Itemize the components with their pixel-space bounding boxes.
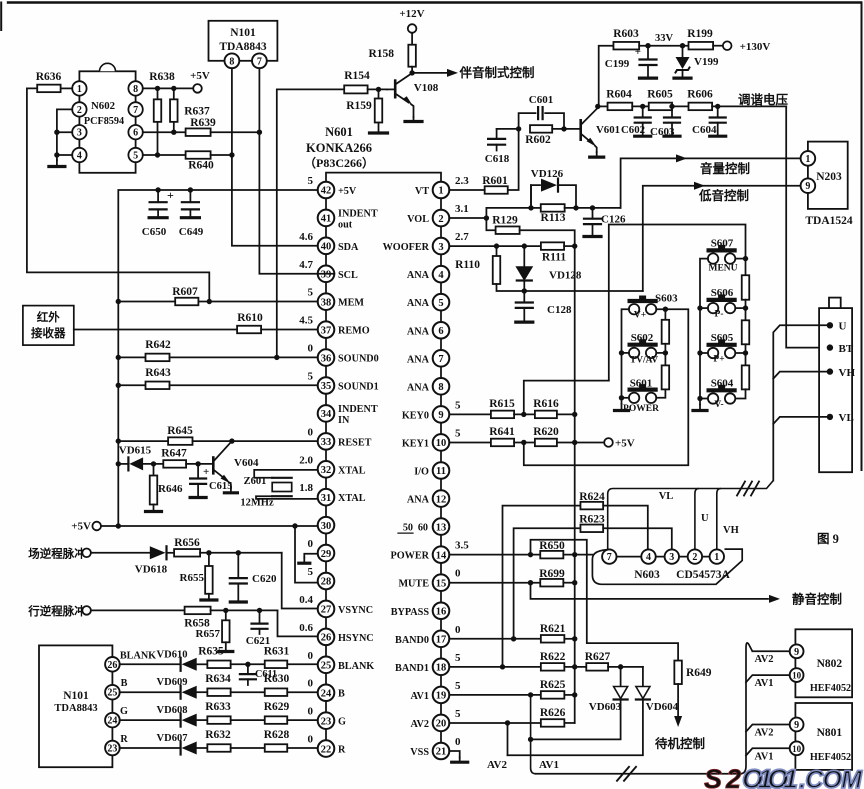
- svg-text:VH: VH: [839, 367, 856, 379]
- svg-text:SCL: SCL: [338, 270, 358, 281]
- pin 41 of N601: [318, 210, 335, 227]
- svg-text:4.7: 4.7: [299, 259, 313, 271]
- svg-text:0.6: 0.6: [299, 622, 313, 634]
- svg-text:15: 15: [436, 578, 447, 589]
- wire VOL node up to R113 row: [486, 208, 531, 218]
- svg-text:SOUND0: SOUND0: [338, 354, 379, 365]
- pin 19 of N601: [433, 687, 450, 704]
- svg-text:R639: R639: [190, 117, 216, 129]
- svg-text:R610: R610: [237, 312, 263, 324]
- ground below C615: [197, 484, 199, 498]
- box tuner: [819, 308, 852, 472]
- terminal +130V: [723, 41, 732, 50]
- cable slashes on harness: [737, 482, 745, 496]
- svg-text:0: 0: [455, 568, 461, 580]
- svg-text:5: 5: [455, 680, 461, 692]
- ground below V108 emitter: [413, 117, 415, 122]
- capacitor C650 electrolytic: [157, 190, 159, 202]
- svg-text:18: 18: [436, 663, 447, 674]
- wire IR receiver to REMO row: [74, 329, 237, 331]
- svg-text:8: 8: [438, 382, 443, 393]
- svg-text:+: +: [167, 188, 174, 202]
- wire harness VL/U/VH to N603: [608, 481, 774, 550]
- svg-text:ANA: ANA: [407, 382, 430, 393]
- svg-text:R620: R620: [533, 426, 559, 438]
- svg-text:VD618: VD618: [135, 564, 168, 576]
- svg-text:41: 41: [321, 214, 332, 225]
- pin 7 of N601: [433, 350, 450, 367]
- resistor R638 vertical: [155, 86, 160, 91]
- pin 9 of N203: [801, 178, 816, 193]
- svg-text:C603: C603: [650, 126, 675, 138]
- wire POWER row: [449, 554, 540, 556]
- svg-text:V199: V199: [694, 56, 719, 68]
- svg-text:BYPASS: BYPASS: [391, 607, 430, 618]
- wire tuning voltage to tuner BT: [786, 106, 829, 347]
- svg-text:+5V: +5V: [190, 70, 210, 82]
- svg-text:TDA1524: TDA1524: [805, 215, 853, 227]
- svg-text:接收器: 接收器: [31, 326, 66, 340]
- svg-text:IN: IN: [338, 415, 350, 426]
- svg-text:5: 5: [455, 399, 461, 411]
- svg-text:P-: P-: [715, 310, 724, 320]
- svg-text:R616: R616: [533, 398, 559, 410]
- wire R158 to collector node: [411, 67, 413, 73]
- pin 25 of N101 bottom: [105, 685, 120, 700]
- wire KEY0 feed jog to right button group: [609, 225, 746, 381]
- svg-text:XTAL: XTAL: [338, 465, 366, 476]
- svg-text:ANA: ANA: [407, 326, 430, 337]
- svg-text:R632: R632: [205, 729, 231, 741]
- pin 34 of N601: [318, 405, 335, 422]
- svg-text:C611: C611: [255, 669, 277, 680]
- wire N802 pin9 AV2: [752, 650, 789, 652]
- IC N101 top box TDA8843: [209, 21, 278, 61]
- svg-text:R631: R631: [264, 645, 290, 657]
- svg-text:KEY0: KEY0: [402, 410, 429, 421]
- svg-text:KEY1: KEY1: [402, 438, 429, 449]
- svg-text:R628: R628: [264, 729, 290, 741]
- wire U branch to N603 pin2: [695, 489, 699, 550]
- pin 1 of N203: [801, 151, 816, 166]
- svg-text:VD610: VD610: [157, 649, 188, 660]
- pin 25 of N601: [318, 657, 335, 674]
- ground below V604 emitter: [230, 489, 232, 493]
- capacitor C603: [671, 106, 673, 117]
- svg-text:R643: R643: [145, 367, 171, 379]
- pin 24 of N101 bottom: [105, 713, 120, 728]
- svg-text:2: 2: [438, 214, 443, 225]
- svg-text:3: 3: [438, 242, 443, 253]
- svg-text:+: +: [203, 466, 209, 478]
- svg-text:C650: C650: [142, 226, 167, 238]
- svg-text:调谐电压: 调谐电压: [738, 92, 789, 107]
- svg-text:R602: R602: [525, 134, 551, 146]
- svg-text:R603: R603: [613, 28, 639, 40]
- watermark logo: [704, 764, 863, 789]
- ground below R646: [153, 505, 155, 512]
- svg-text:待机控制: 待机控制: [655, 736, 705, 751]
- svg-text:24: 24: [321, 688, 332, 699]
- svg-text:R637: R637: [184, 105, 210, 117]
- svg-text:B: B: [338, 689, 345, 700]
- ground below N602 pin 4: [56, 160, 58, 167]
- svg-text:2.0: 2.0: [299, 454, 313, 466]
- wire volume control to N203 pin1: [621, 158, 801, 208]
- pin 9 of N801: [790, 718, 804, 732]
- svg-text:3.5: 3.5: [455, 540, 469, 552]
- svg-text:伴音制式控制: 伴音制式控制: [458, 65, 534, 80]
- wire BAND1 row: [449, 666, 541, 668]
- svg-text:S607: S607: [711, 238, 734, 250]
- transistor V604: [212, 458, 215, 474]
- wire AV bus vertical right: [740, 643, 752, 774]
- svg-text:TDA8843: TDA8843: [54, 703, 97, 714]
- svg-text:0: 0: [308, 343, 314, 355]
- wire N101 pin8 to SDA pin40: [232, 68, 318, 246]
- svg-text:N601: N601: [325, 125, 353, 139]
- svg-text:AV1: AV1: [754, 678, 773, 689]
- svg-text:静音控制: 静音控制: [792, 592, 842, 607]
- svg-text:17: 17: [436, 635, 447, 646]
- svg-text:HEF4052: HEF4052: [810, 683, 851, 694]
- svg-text:out: out: [338, 219, 353, 230]
- wire R638 bottom to pin5 row: [157, 122, 159, 155]
- resistor R655 vertical: [208, 553, 210, 566]
- resistor R657 vertical: [225, 610, 227, 620]
- svg-text:B: B: [121, 678, 128, 689]
- svg-text:9: 9: [794, 720, 799, 731]
- wire R110 bottom to rail: [497, 284, 643, 291]
- wire N603 pin row link: [609, 556, 717, 558]
- push button S606 P-: [708, 303, 718, 313]
- wire tuner VH to bundle: [773, 372, 830, 379]
- pin 42 of N601: [318, 182, 335, 199]
- svg-text:WOOFER: WOOFER: [383, 242, 430, 253]
- svg-text:BLANK: BLANK: [120, 650, 156, 661]
- capacitor C199 electrolytic: [647, 46, 649, 59]
- terminal field flyback: [82, 549, 91, 558]
- pin 3 of N603: [665, 549, 679, 563]
- svg-text:RESET: RESET: [338, 437, 372, 448]
- svg-text:R110: R110: [455, 259, 480, 271]
- capacitor C620: [237, 553, 239, 578]
- svg-text:13: 13: [436, 522, 447, 533]
- box infrared receiver 红外接收器: [23, 306, 74, 346]
- svg-text:U: U: [701, 513, 709, 524]
- svg-text:28: 28: [321, 577, 332, 588]
- pin 4 of N601: [433, 266, 450, 283]
- svg-text:37: 37: [321, 325, 332, 336]
- svg-text:+12V: +12V: [399, 8, 424, 20]
- svg-text:1: 1: [714, 552, 719, 563]
- pin 28 of N601: [318, 573, 335, 590]
- svg-text:2.3: 2.3: [455, 175, 469, 187]
- svg-text:19: 19: [436, 691, 447, 702]
- push button S607 MENU: [708, 253, 718, 263]
- wire N802 pin10 AV1: [746, 675, 790, 682]
- svg-text:AV1: AV1: [539, 759, 559, 771]
- svg-text:N802: N802: [817, 658, 843, 670]
- svg-text:BAND1: BAND1: [395, 663, 429, 674]
- wire IC left pin column: [325, 198, 327, 209]
- svg-text:R657: R657: [196, 628, 221, 640]
- svg-text:4.6: 4.6: [299, 231, 313, 243]
- svg-text:AV1: AV1: [754, 752, 773, 763]
- svg-text:ANA: ANA: [407, 495, 430, 506]
- ground below C199: [647, 65, 649, 78]
- svg-text:35: 35: [321, 381, 332, 392]
- svg-text:TDA8843: TDA8843: [219, 41, 267, 53]
- pin 1 of N602: [72, 81, 86, 95]
- pin 30 of N601: [318, 517, 335, 534]
- pin 5 of N601: [433, 294, 450, 311]
- svg-text:R159: R159: [346, 100, 372, 112]
- svg-text:P+: P+: [713, 355, 724, 365]
- wire crystal bottom to XTAL pin31: [256, 496, 318, 499]
- svg-text:26: 26: [321, 633, 332, 644]
- wire left rail of right button group: [700, 259, 708, 405]
- svg-text:V604: V604: [234, 457, 259, 469]
- svg-text:R626: R626: [540, 707, 566, 719]
- capacitor C611: [245, 662, 250, 667]
- svg-text:25: 25: [321, 661, 332, 672]
- wire field flyback to VSYNC pin27: [282, 553, 318, 609]
- svg-text:C604: C604: [692, 124, 717, 136]
- svg-text:31: 31: [321, 493, 332, 504]
- svg-text:HEF4052: HEF4052: [810, 752, 851, 763]
- pin 7 of N101 top: [252, 53, 267, 68]
- svg-text:50: 50: [403, 523, 413, 534]
- svg-text:G: G: [120, 706, 128, 717]
- resistor R637 vertical: [171, 86, 176, 91]
- diode VD604: [642, 667, 644, 687]
- svg-text:3: 3: [669, 552, 674, 563]
- svg-text:VSYNC: VSYNC: [338, 605, 373, 616]
- pin 10 of N601: [433, 434, 450, 451]
- terminal line flyback: [82, 606, 91, 615]
- svg-text:AV1: AV1: [411, 691, 430, 702]
- svg-text:CD54573A: CD54573A: [676, 569, 730, 581]
- svg-text:4: 4: [77, 151, 82, 162]
- wire left rail of left button group: [622, 309, 629, 404]
- svg-text:R158: R158: [368, 48, 394, 60]
- svg-text:SDA: SDA: [338, 242, 359, 253]
- wire +5V row from pin42 to rail: [118, 190, 317, 526]
- pin 2 of N603: [688, 549, 702, 563]
- svg-text:5: 5: [455, 427, 461, 439]
- svg-text:R607: R607: [172, 286, 198, 298]
- pin 13 of N601: [433, 518, 450, 535]
- svg-text:N101: N101: [63, 690, 89, 702]
- pin 2 of N601: [433, 210, 450, 227]
- pin 7 of N602: [128, 102, 142, 116]
- svg-text:C618: C618: [485, 153, 510, 165]
- wire R636 left rail down to MEM long wire: [27, 88, 209, 301]
- svg-text:23: 23: [321, 716, 332, 727]
- terminal +12V: [408, 24, 417, 33]
- svg-text:R629: R629: [264, 701, 290, 713]
- wire +5V to pin30 and pin28: [101, 525, 318, 527]
- svg-text:4: 4: [438, 270, 444, 281]
- svg-text:R199: R199: [687, 28, 713, 40]
- pin 37 of N601: [318, 321, 335, 338]
- svg-text:（P83C266）: （P83C266）: [304, 155, 374, 170]
- svg-text:R622: R622: [540, 651, 566, 663]
- svg-text:R615: R615: [489, 398, 515, 410]
- node tuner VH terminal: [827, 368, 833, 374]
- pin 23 of N601: [318, 712, 335, 729]
- svg-text:0: 0: [308, 426, 314, 438]
- svg-text:2: 2: [77, 105, 82, 116]
- svg-text:R621: R621: [540, 623, 566, 635]
- wire KEY0 row: [449, 413, 491, 415]
- svg-text:4.5: 4.5: [299, 315, 313, 327]
- svg-text:C602: C602: [621, 124, 645, 136]
- wire crystal top to XTAL pin32: [254, 470, 318, 478]
- svg-text:2.7: 2.7: [455, 231, 469, 243]
- IC N801 HEF4052 box: [795, 703, 852, 770]
- svg-text:R: R: [120, 734, 128, 745]
- pin 27 of N601: [318, 601, 335, 618]
- wire R650 bypass loop to standby feed: [531, 540, 679, 661]
- wire N602 pin8 row to +5V terminal: [143, 87, 193, 89]
- svg-text:I/O: I/O: [414, 467, 429, 478]
- pin 14 of N601: [433, 546, 450, 563]
- svg-text:R627: R627: [585, 651, 611, 663]
- svg-text:9: 9: [794, 647, 799, 658]
- wire R154 line from SOUND0 junction up: [277, 89, 344, 357]
- svg-text:C128: C128: [547, 304, 572, 316]
- svg-text:R633: R633: [205, 701, 231, 713]
- pin 8 of N602: [128, 81, 142, 95]
- svg-text:R113: R113: [541, 212, 566, 224]
- capacitor C615 electrolytic: [197, 464, 199, 478]
- svg-text:MUTE: MUTE: [398, 579, 429, 590]
- IC N802 HEF4052 box: [795, 629, 852, 697]
- svg-text:R635: R635: [198, 645, 224, 657]
- svg-text:R645: R645: [167, 425, 193, 437]
- wire standby control arrow: [677, 684, 679, 722]
- svg-text:8: 8: [229, 56, 234, 67]
- pin 23 of N101 bottom: [105, 741, 120, 756]
- pin 38 of N601: [318, 293, 335, 310]
- svg-text:12: 12: [436, 494, 447, 505]
- svg-text:5: 5: [308, 287, 314, 299]
- node tuner BT terminal: [827, 344, 833, 350]
- svg-text:0: 0: [308, 734, 314, 746]
- svg-text:.COM: .COM: [799, 766, 863, 789]
- svg-text:R640: R640: [188, 160, 214, 172]
- wire G row: [120, 719, 181, 721]
- svg-text:ANA: ANA: [407, 298, 430, 309]
- ground at pin29: [304, 554, 317, 558]
- pin 10 of N802: [790, 668, 804, 682]
- wire MUTE row: [449, 582, 540, 584]
- pin 7 of N603: [602, 549, 616, 563]
- svg-text:R601: R601: [482, 175, 508, 187]
- svg-text:R646: R646: [158, 483, 183, 495]
- ground below C649: [189, 209, 191, 217]
- svg-text:C620: C620: [252, 573, 277, 585]
- svg-text:5: 5: [455, 708, 461, 720]
- resistor R646 vertical: [153, 464, 155, 476]
- node VOL pin2 junction: [449, 217, 486, 219]
- svg-text:SOUND1: SOUND1: [338, 382, 379, 393]
- pin 9 of N601: [433, 406, 450, 423]
- svg-text:36: 36: [321, 353, 332, 364]
- wire IC right pin column: [440, 198, 442, 209]
- svg-text:VL: VL: [659, 491, 674, 502]
- wire R639 to SCL vertical: [211, 131, 260, 133]
- pin 4 of N602: [72, 148, 86, 162]
- svg-text:5: 5: [455, 652, 461, 664]
- wire BAND0 row: [449, 638, 541, 640]
- svg-text:1.8: 1.8: [299, 482, 313, 494]
- cable break slashes on AV1 line: [617, 767, 629, 781]
- wire R row: [120, 747, 181, 749]
- svg-text:25: 25: [107, 688, 117, 699]
- wire RESET row: [118, 440, 168, 442]
- wire sound-system control arrow: [412, 72, 452, 74]
- svg-text:R638: R638: [149, 71, 175, 83]
- ground below R655: [208, 594, 210, 600]
- svg-text:VD604: VD604: [646, 701, 679, 713]
- pin 10 of N801: [790, 741, 804, 755]
- svg-text:42: 42: [321, 186, 332, 197]
- wire AV1 bottom line: [536, 773, 741, 775]
- pin 1 of N603: [710, 549, 724, 563]
- svg-text:N603: N603: [634, 569, 660, 581]
- svg-text:ANA: ANA: [407, 354, 430, 365]
- svg-text:V108: V108: [414, 82, 439, 94]
- svg-text:N602: N602: [91, 100, 115, 112]
- diode VD603: [620, 667, 622, 687]
- svg-text:BT: BT: [839, 343, 854, 355]
- svg-text:R634: R634: [205, 673, 231, 685]
- svg-text:红外: 红外: [37, 310, 60, 324]
- pin 1 of N601: [433, 182, 450, 199]
- ground below V199: [682, 70, 684, 78]
- svg-text:5: 5: [438, 298, 443, 309]
- svg-text:S606: S606: [711, 287, 734, 299]
- svg-text:8: 8: [133, 84, 138, 95]
- pin 12 of N601: [433, 490, 450, 507]
- svg-text:U: U: [839, 321, 847, 333]
- svg-text:30: 30: [321, 521, 332, 532]
- svg-text:MEM: MEM: [338, 298, 364, 309]
- pin 26 of N101 bottom: [105, 657, 120, 672]
- svg-text:3.1: 3.1: [455, 203, 469, 215]
- pin 31 of N601: [318, 489, 335, 506]
- IC N203 TDA1524 box: [808, 142, 848, 209]
- svg-text:R154: R154: [344, 70, 370, 82]
- svg-text:音量控制: 音量控制: [700, 161, 750, 176]
- resistor R158 vertical: [411, 33, 413, 45]
- svg-text:C199: C199: [605, 58, 630, 70]
- svg-text:V-: V-: [714, 400, 723, 410]
- push button S604 V-: [708, 393, 718, 403]
- node WOOFER pin3 junctions: [449, 245, 541, 247]
- svg-text:R647: R647: [161, 448, 187, 460]
- pin 8 of N101 top: [225, 53, 240, 68]
- svg-text:S603: S603: [655, 293, 678, 305]
- svg-text:2: 2: [692, 552, 697, 563]
- wire R623 to N603 pin3: [603, 528, 672, 549]
- svg-text:+5V: +5V: [71, 521, 91, 533]
- svg-text:C601: C601: [529, 94, 553, 106]
- wire tuner VL to bundle: [773, 417, 830, 424]
